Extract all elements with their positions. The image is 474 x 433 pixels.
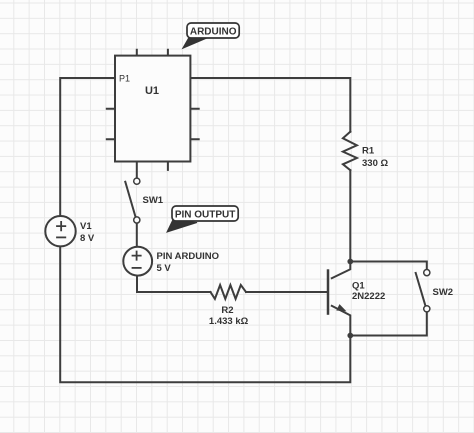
wire: U1 bottom pin to SW1 top terminal <box>136 162 138 179</box>
svg-text:1.433 kΩ: 1.433 kΩ <box>209 316 249 327</box>
wire: SW1 bottom terminal to PIN ARDUINO source top <box>136 223 138 247</box>
svg-text:Q1: Q1 <box>352 281 365 292</box>
junction: collector node <box>347 259 353 265</box>
IC U1 <box>106 49 200 171</box>
svg-text:330 Ω: 330 Ω <box>362 158 388 169</box>
svg-text:SW2: SW2 <box>433 287 454 298</box>
svg-text:5 V: 5 V <box>157 263 172 274</box>
svg-text:ARDUINO: ARDUINO <box>190 27 237 38</box>
wire: R2 right to Q1 base <box>246 291 327 293</box>
wire: emitter node right to SW2 bottom terminal <box>350 312 427 335</box>
wire: V1 bottom to bottom rail to emitter node <box>60 246 350 382</box>
resistor R2 <box>211 285 247 299</box>
callout ARDUINO <box>183 23 240 48</box>
callout PIN OUTPUT <box>167 206 238 232</box>
wire: source bottom to R2 left <box>137 276 211 293</box>
wire: SW2 top terminal to collector node <box>350 262 427 269</box>
wire: R1 top to U1 right pin <box>190 78 350 132</box>
svg-text:U1: U1 <box>145 85 159 97</box>
svg-text:PIN ARDUINO: PIN ARDUINO <box>157 251 219 262</box>
svg-text:2N2222: 2N2222 <box>352 291 385 302</box>
transistor Q1 <box>328 262 350 336</box>
wire: collector node up to R1 bottom <box>349 170 351 261</box>
voltage source V1 <box>45 216 75 246</box>
svg-text:P1: P1 <box>119 74 130 84</box>
junction: emitter node <box>347 333 353 339</box>
resistor R1 <box>343 132 357 171</box>
svg-text:R2: R2 <box>221 305 233 316</box>
svg-text:SW1: SW1 <box>143 195 164 206</box>
svg-text:R1: R1 <box>362 146 375 157</box>
svg-text:PIN OUTPUT: PIN OUTPUT <box>175 209 236 220</box>
svg-text:8 V: 8 V <box>80 233 95 244</box>
svg-text:V1: V1 <box>80 221 92 232</box>
switch SW1 <box>125 178 140 223</box>
voltage source PIN ARDUINO <box>123 247 152 276</box>
wire: U1 pin P1 left to V1 top <box>60 78 115 216</box>
switch SW2 <box>415 270 430 312</box>
